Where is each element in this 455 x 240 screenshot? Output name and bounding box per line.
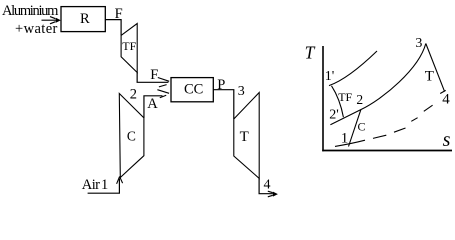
- svg-text:2: 2: [356, 92, 363, 107]
- isobar through 2' 2 to 3: [330, 44, 425, 125]
- combustion chamber CC: [171, 78, 213, 102]
- svg-text:1': 1': [325, 69, 335, 84]
- svg-text:T: T: [240, 129, 249, 145]
- wire compressor to CC: [144, 96, 163, 118]
- svg-text:F: F: [150, 67, 158, 83]
- turbine T: [234, 93, 259, 179]
- wire T exhaust: [259, 178, 273, 193]
- T axis (T-s diagram): [322, 46, 324, 151]
- svg-text:A: A: [147, 96, 158, 112]
- svg-text:C: C: [127, 129, 136, 144]
- reactor box R: [61, 7, 105, 32]
- arrowhead F into CC: [158, 78, 169, 87]
- svg-text:2: 2: [130, 86, 137, 102]
- svg-text:4: 4: [442, 92, 450, 108]
- svg-text:C: C: [358, 120, 366, 134]
- turbine TF: [121, 24, 137, 73]
- svg-text:3: 3: [415, 36, 422, 51]
- arrowhead exhaust: [268, 191, 273, 197]
- svg-text:P: P: [217, 77, 225, 93]
- wire TF to CC: [137, 72, 168, 82]
- arrowhead A into CC: [157, 90, 169, 98]
- process segment C 1-2: [349, 110, 361, 147]
- svg-text:4: 4: [264, 177, 271, 192]
- svg-text:T: T: [425, 69, 434, 85]
- svg-text:2': 2': [329, 108, 339, 123]
- svg-text:R: R: [80, 11, 90, 27]
- process segment T 3-4: [426, 44, 445, 92]
- arrowhead air into C: [117, 177, 123, 184]
- dashed isobar through 1 and 4: [335, 90, 446, 146]
- wire air inlet: [88, 179, 120, 194]
- svg-text:3: 3: [238, 84, 245, 99]
- svg-text:s: s: [443, 129, 451, 151]
- s axis: [322, 150, 452, 152]
- wire CC to T: [213, 90, 234, 119]
- arrow aluminium into R: [42, 17, 59, 24]
- process segment TF 1'-2': [332, 86, 344, 117]
- svg-text:1: 1: [101, 177, 108, 193]
- wire R to TF: [105, 20, 121, 36]
- svg-text:Air: Air: [82, 177, 100, 193]
- svg-text:TF: TF: [122, 39, 136, 53]
- svg-text:CC: CC: [184, 82, 203, 98]
- svg-text:F: F: [115, 6, 123, 22]
- isobar through 1': [329, 51, 377, 86]
- svg-text:T: T: [305, 43, 316, 63]
- svg-text:TF: TF: [338, 90, 352, 104]
- compressor C: [119, 94, 144, 178]
